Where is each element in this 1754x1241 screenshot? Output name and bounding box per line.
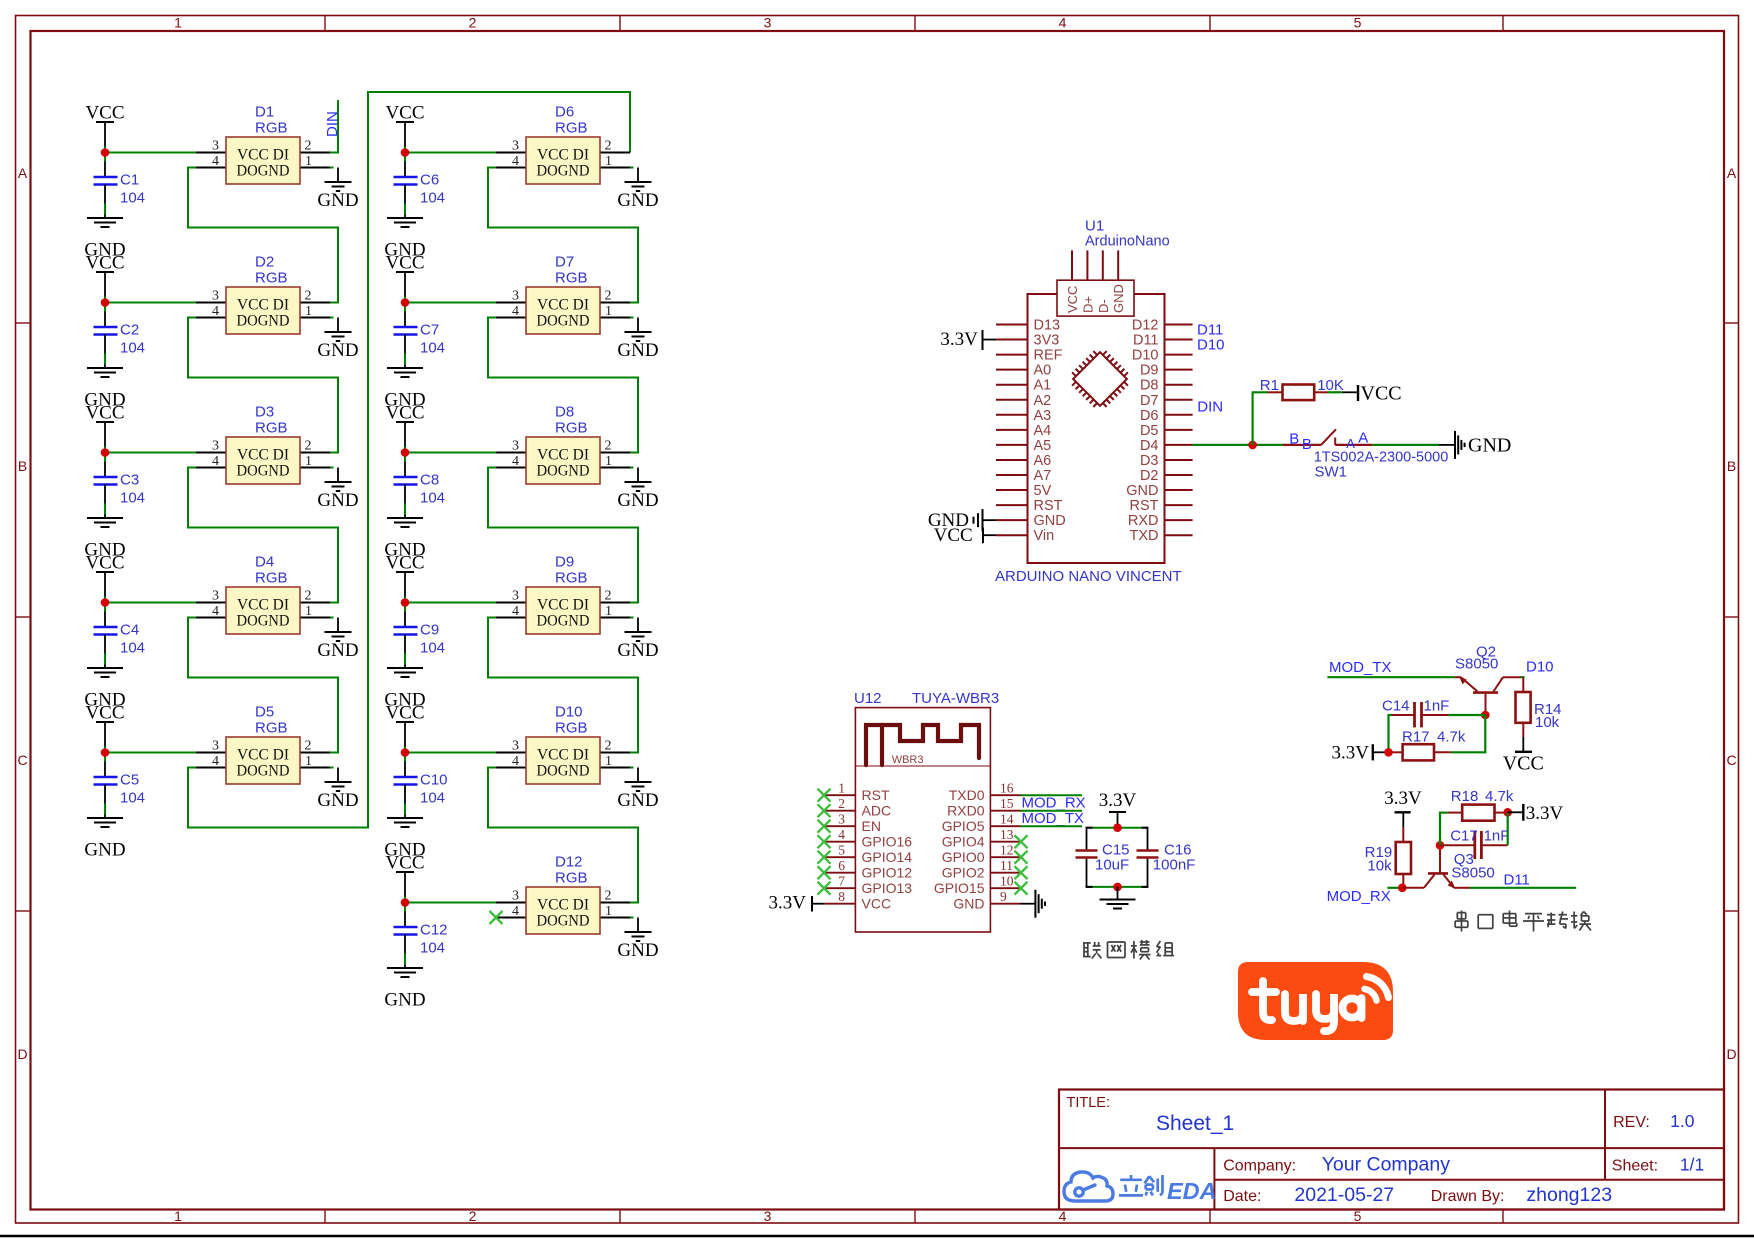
svg-text:10uF: 10uF [1095,857,1129,874]
capacitor C4 [94,622,140,639]
junction node at C4 [101,598,110,607]
svg-text:D3: D3 [1140,453,1159,469]
svg-text:1: 1 [605,454,612,469]
value label 104 (C5) [120,790,145,807]
svg-text:VCC: VCC [85,103,124,124]
svg-text:GND: GND [84,840,125,861]
wire VCC to C7 and D7 pin 3 [405,297,496,328]
border row ticks left [16,323,31,911]
value label 104 (C10) [420,790,445,807]
svg-text:C7: C7 [420,322,439,339]
svg-text:2: 2 [838,796,845,811]
R14 reference label [1534,701,1562,718]
junction bottom rail [1113,883,1122,892]
RGB LED D8 [496,404,630,485]
GND power flag at U1 GND [928,509,996,531]
svg-text:2: 2 [305,589,312,604]
svg-text:4: 4 [838,827,845,842]
svg-text:4: 4 [512,304,519,319]
svg-text:10k: 10k [1535,714,1560,731]
svg-text:VCC: VCC [1361,383,1402,405]
svg-text:VCC DI: VCC DI [537,447,589,464]
svg-text:2: 2 [305,139,312,154]
wire Q3 collector D11 [1470,887,1576,889]
U12 right pins [990,795,1020,904]
svg-text:10: 10 [1000,874,1014,889]
svg-text:12: 12 [1000,843,1014,858]
pin numbers of D7 [512,289,612,320]
svg-text:R1: R1 [1260,377,1279,394]
value label S8050 (Q2) [1455,656,1498,673]
title block Date label [1223,1188,1261,1205]
junction node at C10 [401,748,410,757]
svg-text:ArduinoNano: ArduinoNano [1085,234,1170,250]
svg-text:1: 1 [305,754,312,769]
svg-text:3.3V: 3.3V [769,893,807,914]
wire D5 pin 4 up to D6 pin 2 [188,92,630,828]
svg-text:3.3V: 3.3V [1526,803,1564,824]
svg-text:D5: D5 [1140,423,1159,439]
svg-text:R17: R17 [1402,729,1430,746]
junction node at C8 [401,448,410,457]
svg-text:C12: C12 [420,922,448,939]
VCC power symbol (D4 unit) [85,553,124,597]
border row labels left [17,165,27,1062]
GND power symbol below C3 [84,485,125,561]
svg-text:GPIO13: GPIO13 [862,880,913,896]
svg-text:GND: GND [1111,284,1126,313]
value label S8050 (Q3) [1451,865,1494,882]
U1 part name label [995,568,1182,585]
svg-text:10k: 10k [1367,858,1392,875]
svg-text:2: 2 [605,889,612,904]
svg-text:Vin: Vin [1034,528,1055,544]
net label MOD_RX at Q3 [1327,888,1391,905]
svg-text:RST: RST [1130,498,1159,514]
R1 reference label [1260,377,1279,394]
svg-text:1: 1 [174,15,182,31]
value label 10uF (C15) [1095,857,1129,874]
svg-text:2: 2 [605,139,612,154]
no-connect marks U12 left pins [818,789,831,895]
svg-text:RGB: RGB [555,870,588,887]
svg-text:DIN: DIN [1197,399,1223,416]
svg-text:104: 104 [120,340,145,357]
svg-text:VCC: VCC [385,253,424,274]
svg-text:104: 104 [420,940,445,957]
wire D4 pin 4 to next LED pin 2 [188,618,338,753]
svg-text:Date:: Date: [1223,1188,1261,1205]
svg-text:C9: C9 [420,622,439,639]
U1 chip glyph [1065,344,1134,413]
svg-text:D6: D6 [555,104,574,121]
svg-text:1: 1 [838,781,845,796]
RGB LED D6 [496,104,630,185]
U12 left pin numbers [838,781,845,905]
svg-text:3: 3 [764,15,772,31]
pin numbers of D8 [512,439,612,470]
svg-text:EDA: EDA [1167,1178,1217,1204]
svg-text:104: 104 [120,490,145,507]
VCC power symbol (D5 unit) [85,703,124,747]
pin numbers of D1 [212,139,312,170]
wire VCC to C10 and D10 pin 3 [405,747,496,778]
wire VCC to C9 and D9 pin 3 [405,597,496,628]
value label 104 (C7) [420,340,445,357]
GND power symbol below C12 [384,935,425,1011]
svg-text:TXD0: TXD0 [949,787,985,803]
svg-text:ADC: ADC [862,803,892,819]
svg-text:2: 2 [469,1208,477,1224]
svg-text:14: 14 [1000,812,1014,827]
RGB LED D10 [496,704,630,785]
U12 left pins [824,795,855,904]
value label 10K (R1) [1317,377,1344,394]
svg-text:TXD: TXD [1130,528,1159,544]
svg-text:GND: GND [317,190,358,211]
svg-text:DOGND: DOGND [237,163,290,180]
svg-text:4.7k: 4.7k [1437,729,1466,746]
svg-text:VCC DI: VCC DI [237,147,289,164]
svg-text:VCC DI: VCC DI [537,297,589,314]
svg-text:RGB: RGB [555,570,588,587]
svg-text:DOGND: DOGND [537,313,590,330]
svg-text:100nF: 100nF [1153,857,1196,874]
svg-text:4: 4 [512,454,519,469]
wire U12 GPIO5 [1021,825,1083,827]
capacitor C6 [394,172,440,189]
GND power symbol below C6 [384,185,425,261]
value label 104 (C1) [120,190,145,207]
svg-text:1: 1 [605,754,612,769]
svg-text:WBR3: WBR3 [892,754,924,766]
svg-text:3: 3 [764,1208,772,1224]
GND power symbol below C4 [84,635,125,711]
svg-text:1: 1 [605,304,612,319]
svg-text:2: 2 [305,289,312,304]
svg-text:C2: C2 [120,322,139,339]
svg-text:A2: A2 [1034,393,1052,409]
svg-text:15: 15 [1000,796,1014,811]
GND power symbol at D4 pin 1 [317,618,358,662]
svg-text:RST: RST [1034,498,1063,514]
svg-text:GND: GND [1034,513,1066,529]
U12 left pin names [862,787,913,912]
svg-text:zhong123: zhong123 [1526,1184,1612,1206]
svg-text:D7: D7 [555,254,574,271]
svg-text:B: B [1302,436,1312,453]
svg-text:C: C [1726,752,1736,768]
svg-text:RGB: RGB [255,720,288,737]
svg-text:D3: D3 [255,404,274,421]
wire U12 TXD0 [1021,794,1083,796]
svg-text:4: 4 [212,304,219,319]
junction at Q3 base/C17 [1436,841,1445,850]
value label 104 (C2) [120,340,145,357]
Q2 reference label [1476,644,1496,661]
svg-text:GND: GND [617,340,658,361]
svg-text:VCC: VCC [385,403,424,424]
RGB LED D7 [496,254,630,335]
svg-text:GND: GND [617,640,658,661]
wire MOD_TX to Q2 emitter [1327,676,1455,678]
pin numbers of D12 [512,889,612,920]
3.3V power flag above R19 [1384,788,1422,827]
svg-text:A4: A4 [1034,423,1052,439]
capacitor C2 [94,322,140,339]
capacitor C12 [394,922,448,939]
svg-text:TITLE:: TITLE: [1067,1095,1111,1111]
svg-text:11: 11 [1000,858,1013,873]
wire C15/C16 bottom rail [1086,886,1149,888]
svg-text:GND: GND [317,790,358,811]
svg-text:DOGND: DOGND [237,763,290,780]
pin numbers of D5 [212,739,312,770]
svg-text:A3: A3 [1034,408,1052,424]
svg-text:VCC: VCC [1503,753,1544,775]
RGB LED D2 [196,254,330,335]
svg-text:VCC DI: VCC DI [237,297,289,314]
svg-text:D7: D7 [1140,393,1159,409]
wire Q2 base to C14 [1448,714,1485,716]
U12 reference label [854,690,882,707]
3.3V power flag at R18 [1508,803,1564,824]
GND power symbol at D10 pin 1 [617,768,658,812]
svg-text:2: 2 [605,289,612,304]
U12 right pin numbers [1000,781,1014,905]
pin numbers of D4 [212,589,312,620]
svg-text:8: 8 [838,889,845,904]
pin numbers of D2 [212,289,312,320]
wire U1 D4 to SW1 [1193,444,1283,446]
svg-text:1: 1 [605,604,612,619]
svg-text:3: 3 [212,439,219,454]
VCC power symbol (D7 unit) [385,253,424,297]
svg-text:DOGND: DOGND [537,163,590,180]
title block sheet name Sheet_1 [1156,1112,1234,1135]
SW1 reference label [1315,464,1348,481]
3.3V power flag at R17 [1332,743,1389,764]
border column labels top [174,15,1362,31]
svg-text:C14: C14 [1382,698,1410,715]
wire D8 pin 4 to next LED pin 2 [488,468,638,603]
svg-text:GPIO14: GPIO14 [862,849,913,865]
wire VCC to C2 and D2 pin 3 [105,297,196,328]
svg-text:U1: U1 [1085,218,1104,235]
svg-text:SW1: SW1 [1315,464,1348,481]
svg-text:VCC: VCC [385,853,424,874]
svg-text:Sheet_1: Sheet_1 [1156,1112,1234,1135]
svg-text:1: 1 [305,304,312,319]
svg-text:1: 1 [305,604,312,619]
svg-text:RGB: RGB [255,570,288,587]
value label 4.7k (R17) [1437,729,1466,746]
svg-text:RXD0: RXD0 [947,803,985,819]
svg-text:13: 13 [1000,827,1014,842]
VCC power symbol (D3 unit) [85,403,124,447]
svg-text:1: 1 [605,154,612,169]
junction node at C5 [101,748,110,757]
RGB LED D3 [196,404,330,485]
svg-text:5: 5 [1354,15,1362,31]
transistor Q3 [1402,845,1470,889]
GND power symbol below C8 [384,485,425,561]
wire D10 pin 4 to next LED pin 2 [488,768,638,903]
svg-text:D: D [17,1046,27,1062]
svg-text:D9: D9 [1140,363,1159,379]
svg-text:VCC DI: VCC DI [237,597,289,614]
resistor R19 [1396,827,1411,888]
svg-text:D2: D2 [255,254,274,271]
U12 right pin names [934,787,985,912]
svg-text:4: 4 [212,604,219,619]
module U12 TUYA-WBR3 body [855,708,990,932]
svg-text:104: 104 [420,340,445,357]
value label 104 (C3) [120,490,145,507]
VCC power symbol (D12 unit) [385,853,424,897]
VCC power flag at U1 Vin [934,525,996,546]
svg-text:1: 1 [605,904,612,919]
svg-text:D4: D4 [1140,438,1159,454]
GND power symbol at D7 pin 1 [617,318,658,362]
svg-text:3: 3 [212,139,219,154]
junction node at C2 [101,298,110,307]
svg-text:2: 2 [305,739,312,754]
svg-text:104: 104 [420,790,445,807]
svg-text:Your Company: Your Company [1322,1154,1451,1176]
svg-text:4.7k: 4.7k [1485,788,1514,805]
svg-text:3: 3 [212,289,219,304]
svg-text:DOGND: DOGND [237,613,290,630]
svg-text:3: 3 [212,589,219,604]
net label D10 at Q2 collector [1526,659,1554,676]
svg-text:6: 6 [838,858,845,873]
wire D1 pin 4 to next LED pin 2 [188,168,338,303]
svg-text:3: 3 [512,589,519,604]
svg-text:3: 3 [212,739,219,754]
svg-text:GPIO12: GPIO12 [862,865,913,881]
svg-text:3: 3 [512,889,519,904]
svg-text:VCC: VCC [934,525,973,546]
svg-text:U12: U12 [854,690,882,707]
wire VCC to C4 and D4 pin 3 [105,597,196,628]
wire VCC to C8 and D8 pin 3 [405,447,496,478]
junction node at C9 [401,598,410,607]
wire MOD_RX to Q3 [1387,887,1402,889]
capacitor C9 [394,622,440,639]
capacitor C8 [394,472,440,489]
svg-text:D: D [1726,1046,1736,1062]
GND power symbol at D3 pin 1 [317,468,358,512]
junction top rail [1113,823,1122,832]
svg-text:2: 2 [605,589,612,604]
R19 reference label [1365,844,1393,861]
svg-text:VCC: VCC [85,553,124,574]
screenshot bottom black rule [0,1235,1754,1238]
svg-text:C17: C17 [1450,828,1478,845]
svg-text:B: B [18,458,27,474]
border row ticks right [1724,323,1739,911]
RGB LED D5 [196,704,330,785]
GND power symbol at D5 pin 1 [317,768,358,812]
svg-text:VCC DI: VCC DI [237,747,289,764]
wire Q2 collector to R14 [1521,677,1525,692]
junction at R19/Q3 emitter [1398,884,1407,893]
pin numbers of D6 [512,139,612,170]
svg-text:3: 3 [512,739,519,754]
svg-text:A7: A7 [1034,468,1052,484]
3.3V power flag above C15/C16 [1099,790,1137,828]
capacitor C5 [94,772,140,789]
svg-text:104: 104 [120,640,145,657]
svg-text:RST: RST [862,787,890,803]
svg-text:D-: D- [1096,299,1111,313]
pin numbers of D3 [212,439,312,470]
VCC power symbol (D8 unit) [385,403,424,447]
title block Company label [1223,1158,1296,1175]
svg-text:D4: D4 [255,554,274,571]
3.3V power flag at U1 3V3 [940,329,996,350]
wire D6 pin 4 to next LED pin 2 [488,168,638,303]
svg-text:VCC DI: VCC DI [237,447,289,464]
VCC power flag below R14 [1503,737,1544,775]
net label MOD_RX at U12 RXD0 [1022,795,1086,812]
U1 reference label [1085,218,1170,250]
U1 left pin names [1034,318,1066,545]
svg-text:3.3V: 3.3V [940,329,978,350]
svg-text:A6: A6 [1034,453,1052,469]
svg-text:D2: D2 [1140,468,1159,484]
svg-text:1nF: 1nF [1484,828,1510,845]
VCC power symbol (D9 unit) [385,553,424,597]
VCC power flag at R1 [1358,383,1402,405]
svg-text:2021-05-27: 2021-05-27 [1294,1184,1394,1206]
GND power symbol below C9 [384,635,425,711]
svg-text:4: 4 [512,754,519,769]
svg-text:3: 3 [838,812,845,827]
svg-text:DOGND: DOGND [537,613,590,630]
net label D11 [1197,322,1223,339]
GND power symbol at D8 pin 1 [617,468,658,512]
net label MOD_TX at Q2 [1329,659,1392,676]
U1 left pins [996,325,1028,536]
svg-text:REF: REF [1034,348,1063,364]
svg-text:VCC: VCC [862,896,892,912]
svg-text:7: 7 [838,874,845,889]
net label DIN at U1 D6 [1197,399,1223,416]
C17 reference label [1450,828,1478,845]
svg-text:R18: R18 [1451,788,1479,805]
resistor R17 [1389,744,1451,760]
svg-text:1/1: 1/1 [1680,1155,1704,1175]
svg-text:D10: D10 [1132,348,1159,364]
GND power symbol below C7 [384,335,425,411]
svg-text:A5: A5 [1034,438,1052,454]
svg-text:3: 3 [512,439,519,454]
svg-text:GND: GND [317,490,358,511]
svg-text:C10: C10 [420,772,448,789]
value label 10k (R19) [1367,858,1392,875]
svg-text:D12: D12 [1132,318,1159,334]
svg-text:4: 4 [212,754,219,769]
resistor R1 [1268,385,1329,401]
net label D10 [1197,337,1225,354]
svg-text:3.3V: 3.3V [1099,790,1137,811]
svg-text:1: 1 [305,454,312,469]
border column ticks bottom [325,1210,1503,1224]
net label DIN [324,111,341,137]
wire R18 to Q3 base [1440,813,1448,846]
